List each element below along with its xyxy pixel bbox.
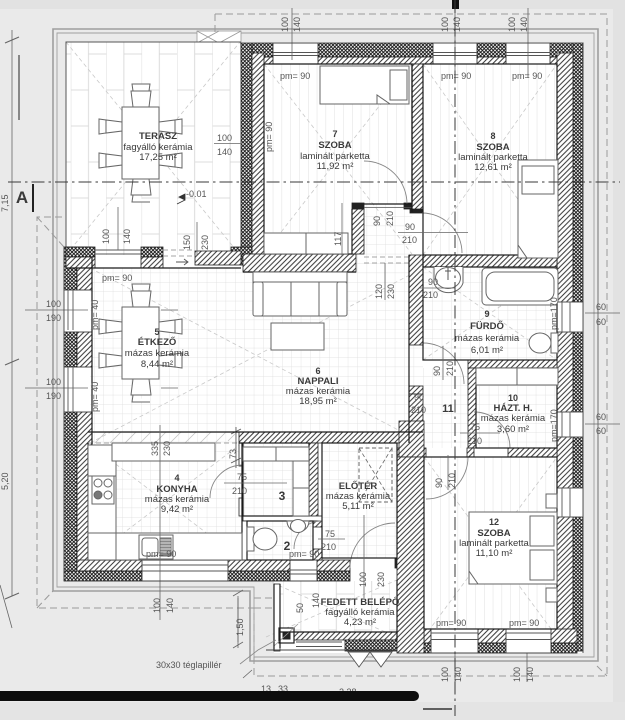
svg-text:FÜRDŐ: FÜRDŐ — [470, 320, 504, 332]
svg-text:pm= 90: pm= 90 — [280, 71, 310, 81]
svg-text:100: 100 — [46, 299, 61, 309]
svg-text:12,61 m²: 12,61 m² — [474, 162, 512, 173]
svg-text:120: 120 — [374, 284, 384, 299]
svg-text:30x30 téglapillér: 30x30 téglapillér — [156, 660, 222, 670]
svg-text:75: 75 — [237, 472, 247, 482]
svg-text:100: 100 — [101, 229, 111, 244]
svg-text:100: 100 — [507, 17, 517, 32]
svg-text:5,11 m²: 5,11 m² — [342, 501, 374, 512]
svg-text:8: 8 — [490, 131, 495, 141]
svg-text:17,25 m²: 17,25 m² — [139, 152, 177, 163]
svg-text:50: 50 — [295, 603, 305, 613]
svg-text:11: 11 — [442, 403, 454, 415]
svg-text:100: 100 — [217, 133, 232, 143]
svg-text:335: 335 — [150, 441, 160, 456]
svg-text:90: 90 — [434, 478, 444, 488]
svg-text:210: 210 — [232, 486, 247, 496]
svg-text:pm= 90: pm= 90 — [441, 71, 471, 81]
svg-text:90: 90 — [405, 222, 415, 232]
svg-text:150: 150 — [182, 235, 192, 250]
svg-text:230: 230 — [386, 284, 396, 299]
svg-text:140: 140 — [217, 147, 232, 157]
svg-text:210: 210 — [411, 405, 426, 415]
svg-text:mázas kerámia: mázas kerámia — [481, 413, 546, 424]
svg-text:pm= 40: pm= 40 — [90, 300, 100, 330]
svg-text:100: 100 — [440, 667, 450, 682]
svg-text:100: 100 — [280, 17, 290, 32]
svg-text:mázas kerámia: mázas kerámia — [125, 348, 190, 359]
svg-text:pm= 90: pm= 90 — [509, 618, 539, 628]
svg-text:100: 100 — [152, 598, 162, 613]
svg-text:pm= 90: pm= 90 — [289, 549, 319, 559]
svg-text:7,15: 7,15 — [0, 194, 10, 212]
svg-text:9: 9 — [484, 309, 489, 319]
svg-text:60: 60 — [596, 302, 606, 312]
svg-text:3,60 m²: 3,60 m² — [497, 424, 529, 435]
svg-text:8,44 m²: 8,44 m² — [141, 359, 173, 370]
svg-text:100: 100 — [358, 572, 368, 587]
svg-text:140: 140 — [311, 593, 321, 608]
svg-text:210: 210 — [321, 542, 336, 552]
svg-text:pm= 90: pm= 90 — [102, 273, 132, 283]
svg-text:pm= 90: pm= 90 — [146, 549, 176, 559]
svg-text:140: 140 — [165, 598, 175, 613]
svg-text:pm= 40: pm= 40 — [90, 382, 100, 412]
svg-text:4,23 m²: 4,23 m² — [344, 617, 376, 628]
svg-text:60: 60 — [596, 317, 606, 327]
svg-text:A: A — [16, 188, 28, 207]
svg-text:210: 210 — [467, 436, 482, 446]
svg-text:210: 210 — [385, 211, 395, 226]
svg-text:60: 60 — [596, 426, 606, 436]
svg-text:140: 140 — [122, 229, 132, 244]
svg-text:140: 140 — [519, 17, 529, 32]
svg-text:pm= 90: pm= 90 — [264, 122, 274, 152]
svg-text:4: 4 — [174, 473, 179, 483]
svg-text:7: 7 — [332, 129, 337, 139]
svg-text:6,01 m²: 6,01 m² — [471, 345, 503, 356]
svg-text:230: 230 — [200, 235, 210, 250]
svg-text:ÉTKEZŐ: ÉTKEZŐ — [138, 336, 177, 348]
svg-text:100: 100 — [46, 377, 61, 387]
svg-text:190: 190 — [46, 391, 61, 401]
svg-text:pm=170: pm=170 — [549, 297, 559, 330]
svg-text:140: 140 — [292, 17, 302, 32]
svg-text:90: 90 — [414, 392, 424, 402]
svg-text:-0.01: -0.01 — [186, 189, 207, 199]
svg-text:pm=170: pm=170 — [549, 409, 559, 442]
svg-text:230: 230 — [162, 441, 172, 456]
svg-text:210: 210 — [445, 361, 455, 376]
svg-text:9,42 m²: 9,42 m² — [161, 504, 193, 515]
svg-text:12: 12 — [489, 517, 499, 527]
svg-text:18,95 m²: 18,95 m² — [299, 396, 337, 407]
svg-text:100: 100 — [512, 667, 522, 682]
svg-text:210: 210 — [402, 235, 417, 245]
svg-text:190: 190 — [46, 313, 61, 323]
svg-text:210: 210 — [423, 290, 438, 300]
svg-text:mázas kerámia: mázas kerámia — [455, 333, 520, 344]
svg-text:90: 90 — [432, 366, 442, 376]
svg-text:140: 140 — [452, 17, 462, 32]
svg-text:pm= 90: pm= 90 — [512, 71, 542, 81]
svg-text:140: 140 — [525, 667, 535, 682]
svg-text:117: 117 — [333, 232, 343, 246]
svg-text:230: 230 — [376, 572, 386, 587]
svg-text:3: 3 — [279, 489, 286, 503]
svg-text:10: 10 — [508, 393, 518, 403]
svg-text:73: 73 — [228, 449, 238, 459]
svg-text:5,20: 5,20 — [0, 472, 10, 490]
svg-text:SZOBA: SZOBA — [318, 140, 351, 151]
svg-text:100: 100 — [440, 17, 450, 32]
svg-text:TERASZ: TERASZ — [139, 131, 177, 142]
svg-text:60: 60 — [596, 412, 606, 422]
svg-text:6: 6 — [315, 366, 320, 376]
svg-text:75: 75 — [470, 422, 480, 432]
svg-text:1,50: 1,50 — [235, 618, 245, 636]
svg-text:90: 90 — [372, 216, 382, 226]
svg-text:90: 90 — [428, 277, 438, 287]
svg-text:11,92 m²: 11,92 m² — [317, 161, 354, 172]
svg-text:75: 75 — [325, 529, 335, 539]
svg-text:pm= 90: pm= 90 — [436, 618, 466, 628]
svg-text:5: 5 — [154, 327, 159, 337]
svg-text:11,10 m²: 11,10 m² — [476, 548, 513, 559]
